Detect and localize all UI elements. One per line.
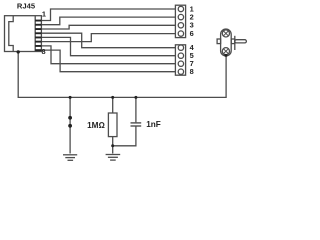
wire pin3 to terminal 3 (41, 25, 175, 29)
svg-text:8: 8 (190, 67, 194, 76)
capacitor branch wire top (135, 97, 137, 122)
shield contact clamp plate (234, 36, 236, 50)
svg-text:1: 1 (42, 10, 46, 19)
wire pin7 to terminal 7 (41, 46, 175, 64)
shield contact screw shank (235, 40, 247, 43)
shield contact crossed circle bottom (222, 48, 229, 55)
shield contact crossed circle top (222, 30, 229, 37)
svg-text:1nF: 1nF (146, 120, 161, 129)
capacitor bottom wire (113, 127, 136, 146)
shield wire from jack to ground bus (18, 52, 226, 98)
resistor bottom wire (112, 137, 114, 154)
junction dot capacitor top (134, 96, 137, 99)
jumper branch wire (69, 97, 71, 153)
wire pin4 to terminal 4 (41, 33, 175, 48)
terminal block lower (contacts 4 5 7 8) (175, 45, 185, 75)
svg-text:8: 8 (42, 47, 46, 56)
capacitor 1nF plates (131, 122, 142, 124)
terminal block upper (contacts 1 2 3 6) (175, 5, 185, 37)
RJ45 jack cavity latch profile (9, 16, 13, 52)
wire pin6 to terminal 6 (41, 34, 175, 42)
junction dot shield contact stem (224, 54, 227, 57)
shield contact right tab (231, 39, 235, 44)
junction dot bottom node (111, 144, 114, 147)
svg-text:6: 6 (190, 29, 194, 38)
svg-text:RJ45: RJ45 (17, 2, 36, 11)
RJ45 jack outer body (5, 16, 42, 52)
RJ45 pin teeth (35, 20, 41, 22)
svg-text:1MΩ: 1MΩ (87, 121, 105, 130)
resistor 1M body (108, 113, 117, 137)
junction dot resistor top (111, 96, 114, 99)
wire pin5 to terminal 5 (41, 37, 175, 55)
wire pin1 to terminal 1 (41, 9, 175, 21)
junction dot jack shield (17, 50, 20, 53)
junction dot bus left (69, 96, 72, 99)
shield contact element (pill body) (221, 29, 232, 56)
wire pin8 to terminal 8 (41, 50, 175, 72)
ground symbol left (63, 154, 77, 156)
wire pin2 to terminal 2 (41, 17, 175, 25)
ground symbol right (106, 154, 121, 156)
shield contact left tab (217, 39, 221, 44)
jumper contact dots (68, 116, 72, 120)
resistor R branch wire top (112, 97, 114, 113)
RJ45 pin block spine (34, 16, 36, 52)
